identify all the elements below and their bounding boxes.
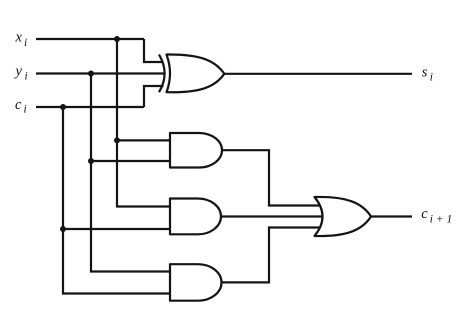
wire c_i branch vertical xyxy=(63,107,172,294)
or-gate U5 body xyxy=(315,197,372,236)
wire c_i branch to AND2 input 2 xyxy=(63,228,172,230)
svg-text:c: c xyxy=(15,97,22,113)
wire XOR output s_i xyxy=(223,73,412,75)
wire input y_i xyxy=(36,72,166,74)
wire x_i branch to AND1 input 1 xyxy=(117,139,172,141)
svg-text:i: i xyxy=(24,104,27,116)
svg-text:i: i xyxy=(430,71,433,83)
wire OR output c_i+1 xyxy=(369,215,412,217)
node junction on y_i xyxy=(88,71,94,77)
wire y_i branch to AND1 input 2 xyxy=(91,160,172,162)
node junction on c_i xyxy=(60,104,66,110)
xor-gate U1 body xyxy=(167,54,225,92)
wire x_i to XOR top input xyxy=(144,39,164,62)
node junction AND1 input 2 xyxy=(88,158,94,164)
node junction AND1 input 1 xyxy=(114,137,120,143)
wire AND1 output to OR input 1 xyxy=(220,150,322,205)
svg-text:i: i xyxy=(25,71,28,83)
and-gate U2 xyxy=(170,133,222,168)
node junction on x_i xyxy=(114,36,120,42)
svg-text:i + 1: i + 1 xyxy=(430,214,452,226)
wire y_i branch vertical xyxy=(91,74,172,272)
wire input c_i xyxy=(36,106,144,108)
wire c_i to XOR bottom input xyxy=(144,86,164,107)
xor-gate U1 input arc xyxy=(159,55,165,93)
svg-text:c: c xyxy=(421,206,428,222)
and-gate U4 xyxy=(170,264,221,301)
svg-text:x: x xyxy=(15,30,23,46)
node junction AND2 input 2 xyxy=(60,226,66,232)
svg-text:y: y xyxy=(14,64,23,80)
wire input x_i xyxy=(36,38,144,40)
svg-text:i: i xyxy=(24,37,27,49)
wire AND2 output to OR input 2 xyxy=(219,215,322,217)
wire AND3 output to OR input 3 xyxy=(219,228,322,283)
svg-text:s: s xyxy=(422,64,428,80)
wire x_i branch vertical xyxy=(117,39,172,207)
and-gate U3 xyxy=(170,199,221,235)
